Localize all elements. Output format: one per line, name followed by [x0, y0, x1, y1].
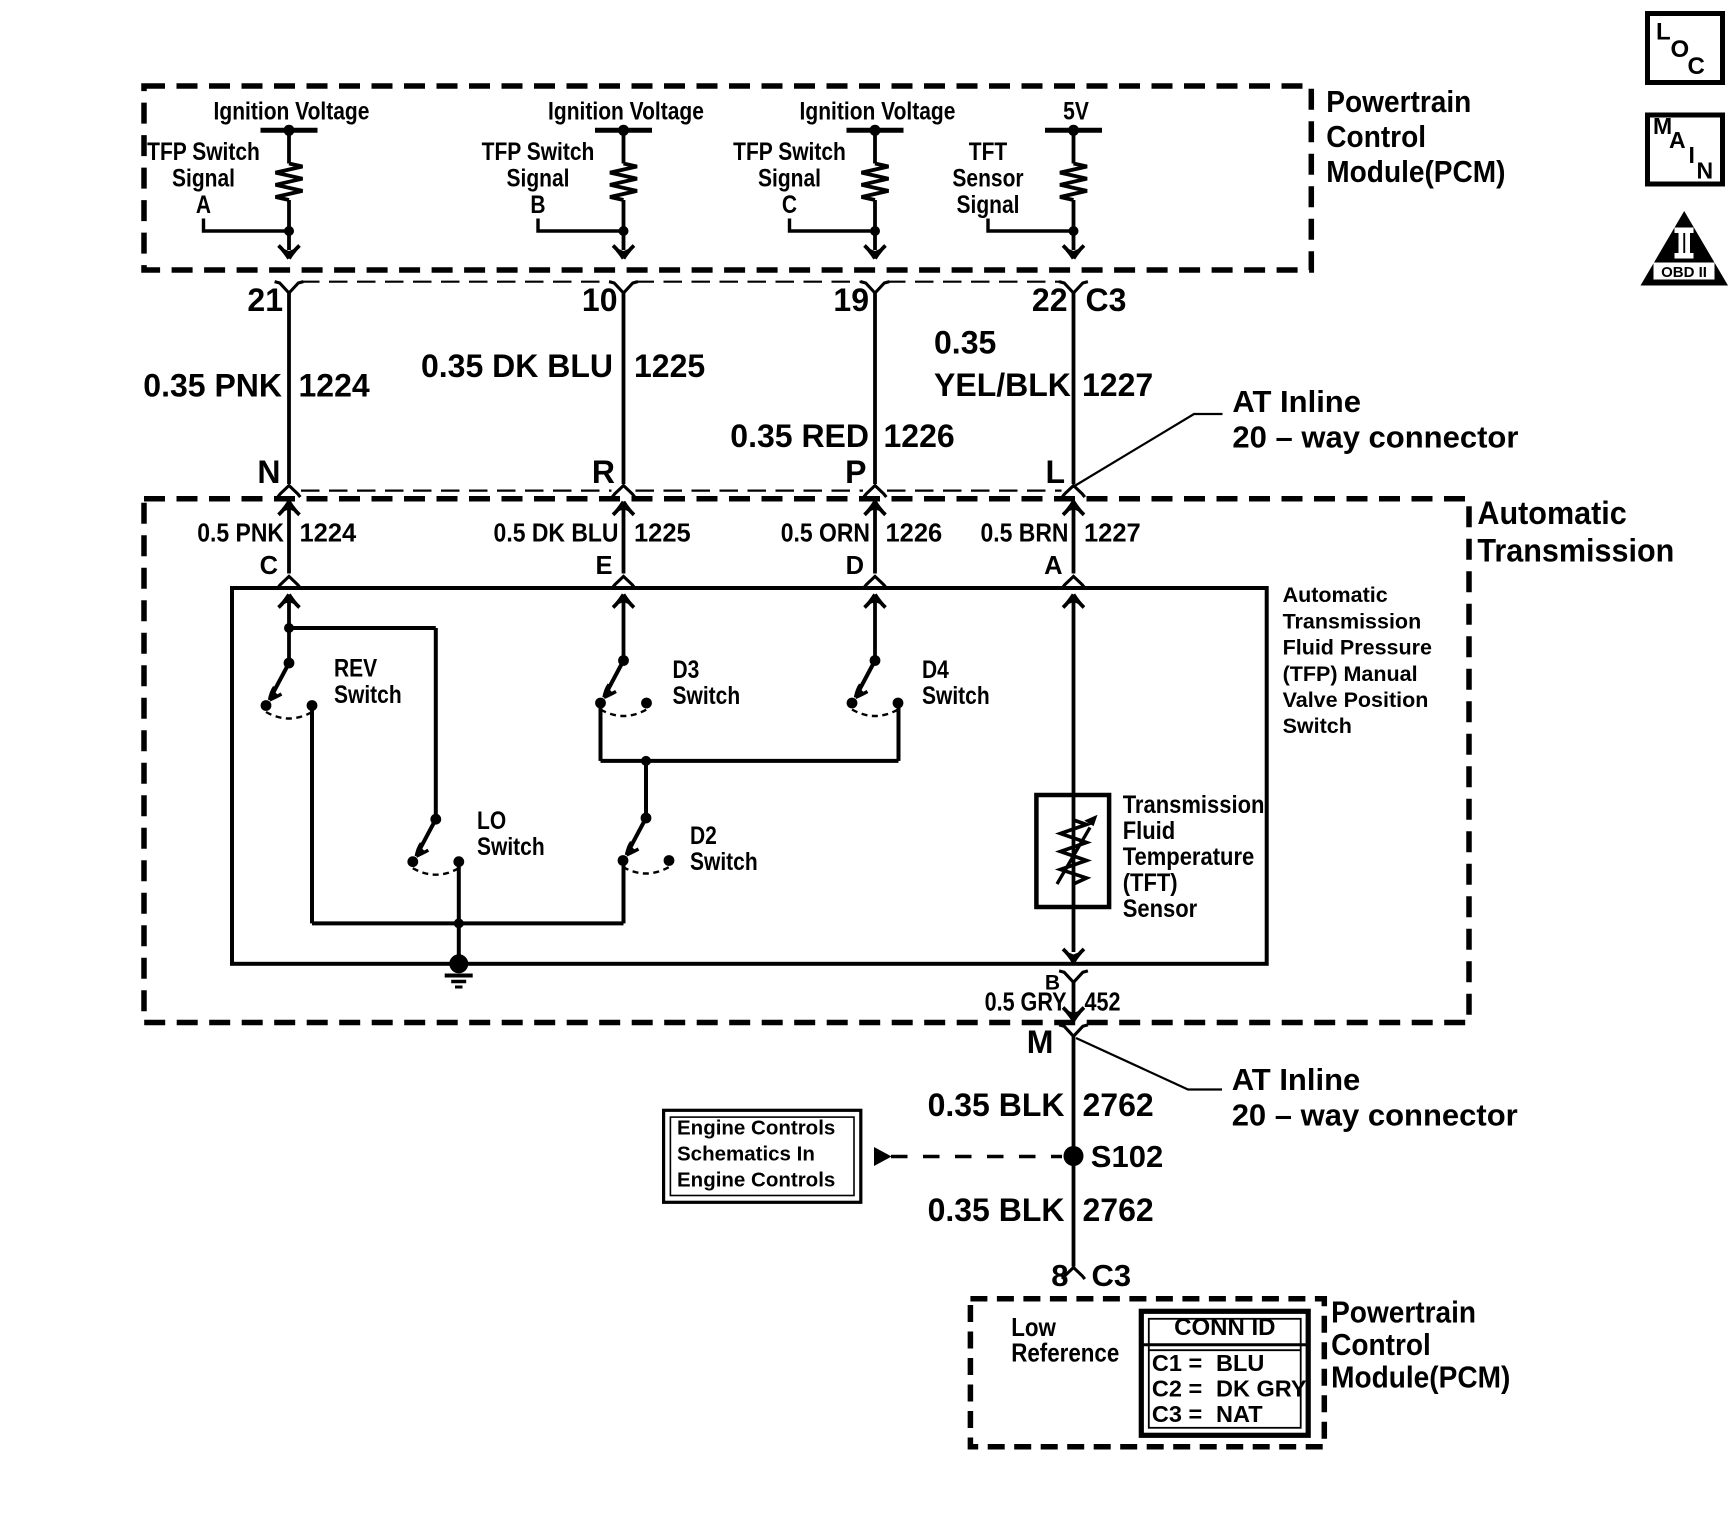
- wire 1225 inside AT + pin E: [494, 502, 691, 588]
- svg-text:L: L: [1045, 454, 1065, 490]
- wire: signal elbow cell C: [790, 219, 881, 237]
- svg-text:0.5 GRY: 0.5 GRY: [985, 988, 1067, 1017]
- svg-text:Control: Control: [1326, 120, 1426, 154]
- pin 19 (PCM C3): [833, 282, 889, 319]
- switch D4: [847, 655, 904, 716]
- svg-text:1225: 1225: [634, 348, 705, 384]
- wire 1224 inside AT + pin C: [197, 502, 357, 588]
- svg-text:B: B: [530, 190, 545, 218]
- svg-text:Transmission: Transmission: [1477, 531, 1674, 568]
- svg-text:P: P: [845, 454, 866, 490]
- svg-text:Ignition Voltage: Ignition Voltage: [214, 97, 370, 125]
- PCM title (bottom): [1331, 1295, 1510, 1394]
- label: signal name cell TFT: [952, 137, 1023, 218]
- svg-text:5V: 5V: [1063, 97, 1089, 125]
- svg-text:Switch: Switch: [922, 681, 990, 709]
- svg-text:1224: 1224: [299, 368, 370, 404]
- svg-text:Engine Controls: Engine Controls: [677, 1117, 835, 1140]
- svg-text:DK GRY: DK GRY: [1216, 1376, 1307, 1402]
- svg-text:0.35 BLK: 0.35 BLK: [928, 1087, 1065, 1123]
- resistor (pull-up, cell C): [862, 130, 889, 250]
- svg-text:Transmission: Transmission: [1123, 791, 1265, 819]
- svg-text:C1: C1: [1152, 1350, 1182, 1376]
- svg-text:C3: C3: [1092, 1258, 1132, 1293]
- svg-text:2762: 2762: [1083, 1087, 1154, 1123]
- pin 8 C3 (PCM): [1051, 1258, 1131, 1293]
- svg-text:NAT: NAT: [1216, 1401, 1263, 1427]
- wire 1225 segment 1: [622, 293, 626, 484]
- svg-text:Sensor: Sensor: [1123, 895, 1198, 923]
- svg-text:Switch: Switch: [334, 680, 402, 708]
- svg-text:(TFT): (TFT): [1123, 869, 1178, 897]
- switch REV: [261, 658, 318, 719]
- wire: supply T-bar cell C: [847, 125, 904, 136]
- TFT sensor label: [1123, 791, 1265, 923]
- svg-text:1225: 1225: [634, 520, 691, 548]
- svg-text:TFP Switch: TFP Switch: [482, 137, 595, 165]
- node Ignition Voltage (cell C): [800, 97, 956, 125]
- wire 1227 segment 1: [1072, 293, 1076, 484]
- leader: AT Inline 20-way connector (bottom): [1076, 1038, 1518, 1133]
- label: 0.35 BLK 2762 (lower): [928, 1192, 1154, 1228]
- svg-text:Signal: Signal: [172, 164, 235, 192]
- svg-text:452: 452: [1085, 988, 1121, 1017]
- svg-text:C: C: [782, 190, 797, 218]
- svg-text:REV: REV: [334, 654, 378, 682]
- pin L (AT inline 20-way): [1045, 454, 1084, 497]
- resistor (pull-up, cell B): [610, 130, 637, 250]
- svg-text:Ignition Voltage: Ignition Voltage: [800, 97, 956, 125]
- svg-text:=: =: [1189, 1376, 1203, 1402]
- svg-text:=: =: [1189, 1350, 1203, 1376]
- label: 0.35 RED 1226: [730, 418, 954, 454]
- svg-text:Automatic: Automatic: [1283, 583, 1388, 607]
- LOC legend symbol: [1648, 14, 1723, 83]
- wire: bus to D2 pivot: [644, 761, 648, 818]
- svg-text:22: 22: [1032, 282, 1068, 318]
- arrow: wire exits PCM cell TFT: [1063, 246, 1084, 259]
- svg-text:Fluid: Fluid: [1123, 817, 1176, 845]
- label: Low Reference: [1011, 1314, 1119, 1368]
- svg-text:M: M: [1027, 1024, 1054, 1060]
- label D4 Switch: [922, 655, 990, 709]
- label: signal name cell C: [733, 137, 846, 218]
- pin P (AT inline 20-way): [845, 454, 886, 497]
- TFT sensor (thermistor): [1036, 795, 1109, 907]
- wire 1224 segment 1: [287, 293, 291, 484]
- svg-text:BLU: BLU: [1216, 1350, 1264, 1376]
- svg-text:Signal: Signal: [507, 164, 570, 192]
- MAIN legend symbol: [1648, 113, 1723, 184]
- svg-text:20 – way connector: 20 – way connector: [1232, 1098, 1518, 1133]
- wire E inside switch box: [613, 595, 634, 661]
- svg-text:I: I: [1689, 142, 1695, 168]
- svg-text:Switch: Switch: [477, 832, 545, 860]
- svg-text:Ignition Voltage: Ignition Voltage: [548, 97, 704, 125]
- svg-text:1227: 1227: [1084, 520, 1141, 548]
- PCM title (top): [1326, 85, 1505, 189]
- label: signal name cell B: [482, 137, 595, 218]
- svg-text:0.5 BRN: 0.5 BRN: [981, 519, 1069, 547]
- pin M (AT inline 20-way): [1027, 1024, 1088, 1060]
- label: 0.35 DK BLU 1225: [421, 348, 705, 384]
- node Ignition Voltage (cell A): [214, 97, 370, 125]
- wire: D3/D4 common bus: [601, 704, 899, 766]
- svg-text:OBD II: OBD II: [1661, 264, 1707, 281]
- svg-text:D: D: [846, 552, 864, 580]
- svg-text:D4: D4: [922, 655, 949, 683]
- svg-text:21: 21: [247, 282, 283, 318]
- wire: D2 out to ground bus: [622, 861, 626, 923]
- pin 10 (PCM C3): [582, 282, 638, 319]
- CONN ID table: [1141, 1311, 1308, 1435]
- switch LO: [407, 814, 464, 875]
- svg-text:LO: LO: [477, 806, 506, 834]
- svg-text:D3: D3: [673, 655, 700, 683]
- switch D3: [595, 655, 652, 716]
- wire: REV out to ground bus: [312, 706, 624, 924]
- label LO Switch: [477, 806, 545, 860]
- arrow: wire exits PCM cell C: [865, 246, 886, 259]
- svg-text:Valve Position: Valve Position: [1283, 688, 1429, 712]
- svg-text:S102: S102: [1091, 1139, 1163, 1174]
- svg-text:A: A: [196, 190, 211, 218]
- pin N (AT inline 20-way): [257, 454, 300, 497]
- svg-text:Signal: Signal: [957, 190, 1020, 218]
- node 5V (cell TFT): [1063, 97, 1089, 125]
- svg-text:E: E: [595, 552, 612, 580]
- dashed reference line to S102: [891, 1155, 1062, 1159]
- label D2 Switch: [690, 821, 758, 875]
- svg-text:Engine Controls: Engine Controls: [677, 1168, 835, 1191]
- svg-text:1226: 1226: [886, 520, 943, 548]
- svg-text:Reference: Reference: [1011, 1339, 1119, 1368]
- svg-text:N: N: [257, 454, 280, 490]
- PCM module box (bottom): [970, 1299, 1324, 1447]
- svg-text:AT Inline: AT Inline: [1232, 384, 1361, 419]
- svg-text:0.35 DK BLU: 0.35 DK BLU: [421, 348, 613, 384]
- C3 connector: thin dashed line (top): [301, 281, 1062, 283]
- svg-text:0.5 ORN: 0.5 ORN: [781, 519, 870, 547]
- pin B (TFT sensor low): [1045, 971, 1088, 995]
- arrow: engine controls reference: [874, 1147, 892, 1166]
- AT inline connector: thin dashed line (bottom): [301, 490, 1062, 492]
- pin 22 (PCM C3): [1032, 282, 1088, 319]
- arrow: wire exits PCM cell B: [613, 246, 634, 259]
- splice S102: [1064, 1139, 1164, 1174]
- pin R (AT inline 20-way): [592, 454, 635, 497]
- label: 0.35 YEL/BLK 1227: [934, 325, 1153, 404]
- svg-text:Schematics In: Schematics In: [677, 1142, 815, 1165]
- svg-text:TFP Switch: TFP Switch: [147, 137, 260, 165]
- wire: REV crossover to LO: [289, 628, 436, 819]
- svg-text:Temperature: Temperature: [1123, 843, 1255, 871]
- svg-text:Automatic: Automatic: [1477, 494, 1626, 531]
- svg-text:N: N: [1697, 158, 1714, 184]
- wire: signal elbow cell A: [204, 219, 295, 237]
- wire 1226 segment 1: [873, 293, 877, 484]
- wire 1226 inside AT + pin D: [781, 502, 942, 588]
- svg-text:1226: 1226: [884, 418, 955, 454]
- svg-text:1224: 1224: [300, 520, 358, 548]
- svg-text:Powertrain: Powertrain: [1331, 1295, 1476, 1329]
- leader: AT Inline 20-way connector (top): [1072, 384, 1518, 488]
- label C3 (top): [1086, 282, 1127, 318]
- wire A inside switch box: [1063, 595, 1084, 963]
- wire: LO out to ground: [454, 862, 464, 964]
- svg-text:Signal: Signal: [758, 164, 821, 192]
- svg-text:0.5 PNK: 0.5 PNK: [197, 519, 284, 547]
- wire: supply T-bar cell TFT: [1045, 125, 1102, 136]
- svg-text:C3: C3: [1086, 282, 1127, 318]
- PCM module box (top): [144, 86, 1311, 270]
- svg-text:Switch: Switch: [1283, 714, 1352, 738]
- svg-text:0.35: 0.35: [934, 325, 996, 361]
- svg-text:YEL/BLK: YEL/BLK: [934, 367, 1071, 403]
- wire: signal elbow cell TFT: [988, 219, 1079, 237]
- resistor (pull-up, cell A): [276, 130, 303, 250]
- Automatic Transmission title: [1477, 494, 1674, 568]
- ground: [445, 954, 473, 987]
- svg-text:Sensor: Sensor: [952, 164, 1023, 192]
- svg-text:(TFP) Manual: (TFP) Manual: [1283, 662, 1418, 686]
- wire 452 segment: [1063, 982, 1084, 1020]
- svg-text:20 – way connector: 20 – way connector: [1232, 420, 1518, 455]
- svg-text:TFT: TFT: [969, 137, 1007, 165]
- svg-text:19: 19: [833, 282, 869, 318]
- svg-text:Switch: Switch: [673, 681, 741, 709]
- arrow: wire exits PCM cell A: [279, 246, 300, 259]
- pin 21 (PCM C3): [247, 282, 303, 319]
- svg-text:0.5 DK BLU: 0.5 DK BLU: [494, 519, 619, 547]
- label: signal name cell A: [147, 137, 260, 218]
- svg-text:C: C: [260, 552, 278, 580]
- TFP manual valve position switch box: [232, 588, 1267, 964]
- svg-text:C3: C3: [1152, 1401, 1182, 1427]
- svg-text:O: O: [1671, 36, 1690, 63]
- svg-text:C: C: [1688, 53, 1705, 80]
- svg-text:=: =: [1189, 1401, 1203, 1427]
- svg-text:Module(PCM): Module(PCM): [1326, 155, 1505, 189]
- svg-text:AT Inline: AT Inline: [1232, 1062, 1361, 1097]
- wire 2762 (upper): [1072, 1036, 1076, 1266]
- svg-text:Module(PCM): Module(PCM): [1331, 1360, 1510, 1394]
- svg-text:0.35 PNK: 0.35 PNK: [143, 368, 282, 404]
- label D3 Switch: [673, 655, 741, 709]
- wire: supply T-bar cell A: [261, 125, 318, 136]
- svg-text:D2: D2: [690, 821, 717, 849]
- label: 0.35 BLK 2762 (upper): [928, 1087, 1154, 1123]
- svg-text:Control: Control: [1331, 1328, 1431, 1362]
- svg-text:L: L: [1656, 19, 1671, 46]
- wire: supply T-bar cell B: [595, 125, 652, 136]
- svg-text:Powertrain: Powertrain: [1326, 85, 1471, 119]
- svg-text:Transmission: Transmission: [1283, 609, 1422, 633]
- OBD II symbol: [1641, 211, 1729, 286]
- svg-text:Switch: Switch: [690, 847, 758, 875]
- svg-text:1227: 1227: [1082, 367, 1153, 403]
- svg-text:2762: 2762: [1083, 1192, 1154, 1228]
- wire D inside switch box: [865, 595, 886, 661]
- svg-text:A: A: [1669, 127, 1686, 153]
- svg-text:Fluid Pressure: Fluid Pressure: [1283, 636, 1432, 660]
- svg-text:TFP Switch: TFP Switch: [733, 137, 846, 165]
- svg-text:A: A: [1044, 552, 1062, 580]
- label: 0.5 GRY 452: [985, 988, 1121, 1017]
- wire C inside switch box: [279, 595, 300, 664]
- Engine Controls reference box: [664, 1110, 861, 1202]
- label: 0.35 PNK 1224: [143, 368, 370, 404]
- svg-text:C2: C2: [1152, 1376, 1182, 1402]
- node Ignition Voltage (cell B): [548, 97, 704, 125]
- label REV Switch: [334, 654, 402, 708]
- wire: signal elbow cell B: [538, 219, 629, 237]
- svg-text:0.35 BLK: 0.35 BLK: [928, 1192, 1065, 1228]
- svg-text:R: R: [592, 454, 615, 490]
- Automatic Transmission box: [144, 499, 1469, 1023]
- wire 1227 inside AT + pin A: [981, 502, 1141, 588]
- svg-text:CONN ID: CONN ID: [1174, 1314, 1275, 1341]
- TFP switch description: [1283, 583, 1432, 738]
- svg-text:10: 10: [582, 282, 618, 318]
- resistor (pull-up, cell TFT): [1060, 130, 1087, 250]
- svg-text:0.35 RED: 0.35 RED: [730, 418, 869, 454]
- switch D2: [618, 813, 675, 874]
